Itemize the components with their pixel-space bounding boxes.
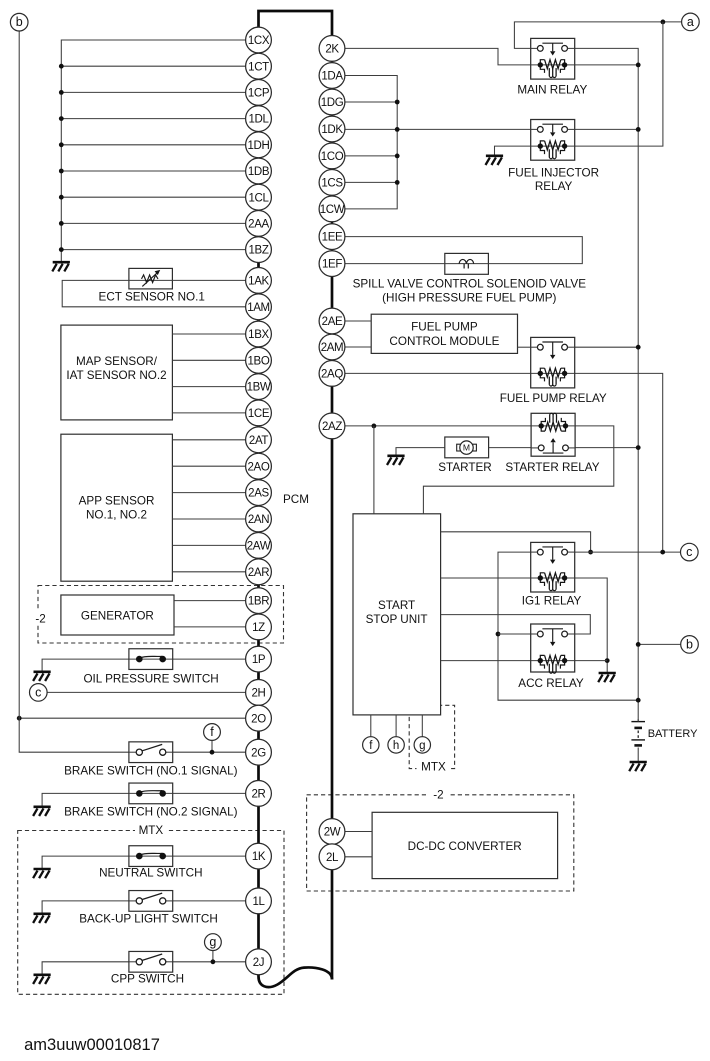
svg-text:1DG: 1DG (321, 97, 344, 109)
junction rail/FI contact (636, 127, 641, 132)
wire SSU to ACC contact (441, 615, 591, 634)
svg-text:a: a (687, 15, 694, 29)
svg-text:NEUTRAL SWITCH: NEUTRAL SWITCH (99, 866, 202, 879)
svg-text:c: c (686, 545, 692, 559)
ground (left collector) (52, 262, 70, 271)
svg-text:1AM: 1AM (247, 302, 270, 314)
wire main relay coil to rail (575, 64, 639, 66)
junction rail/starter contact (636, 445, 641, 450)
PCM pin 1CL (246, 184, 272, 210)
svg-text:2AM: 2AM (321, 342, 344, 354)
junction IG1/ACC ground (605, 658, 610, 663)
junction rail/accessory feed (636, 698, 641, 703)
svg-text:PCM: PCM (283, 493, 309, 506)
wire 1P to ground (42, 659, 246, 671)
wire SSU to IG1 contact feed (441, 532, 591, 552)
PCM pin 1CS (319, 170, 345, 196)
wire 1K to ground (42, 856, 246, 868)
label BACK-UP LIGHT SWITCH (79, 912, 218, 925)
PCM pin 1L (246, 888, 272, 914)
svg-text:MTX: MTX (421, 761, 446, 774)
svg-text:2AW: 2AW (247, 540, 271, 552)
svg-text:2H: 2H (251, 687, 265, 699)
label APP SENSOR (79, 494, 155, 507)
PCM pin 1DG (319, 89, 345, 115)
PCM pin 2AT (246, 427, 272, 453)
IG1 relay U5 (531, 542, 575, 592)
ground (oil pressure) (33, 672, 51, 681)
svg-text:FUEL INJECTOR: FUEL INJECTOR (508, 166, 599, 179)
svg-text:1DA: 1DA (321, 71, 343, 83)
svg-text:1DB: 1DB (248, 166, 270, 178)
junction 1CO (395, 154, 400, 159)
svg-text:SPILL VALVE CONTROL SOLENOID V: SPILL VALVE CONTROL SOLENOID VALVE (353, 278, 587, 291)
generator dashed enclosure (-2) (38, 586, 284, 644)
svg-text:-2: -2 (35, 613, 45, 626)
svg-text:ECT SENSOR NO.1: ECT SENSOR NO.1 (99, 291, 205, 304)
wire a-line to fuel injector relay coil (575, 22, 663, 146)
MTX dashed enclosure (left) (18, 831, 284, 995)
PCM pin 2G (246, 739, 272, 765)
label CONTROL MODULE (389, 335, 499, 348)
svg-text:b: b (16, 15, 23, 29)
svg-text:1P: 1P (252, 654, 266, 666)
junction 1DL (59, 116, 64, 121)
svg-text:BATTERY: BATTERY (648, 728, 698, 740)
svg-text:2AR: 2AR (248, 567, 269, 579)
PCM pin 1BR (246, 588, 272, 614)
svg-text:2J: 2J (253, 957, 264, 969)
PCM pin 1CO (319, 143, 345, 169)
label FUEL INJECTOR (508, 166, 599, 179)
label MAP SENSOR/ (76, 355, 158, 368)
wire 1DH (61, 144, 245, 146)
svg-text:c: c (35, 685, 41, 699)
PCM pin 1AM (246, 294, 272, 320)
wire SSU stub h (395, 715, 397, 737)
svg-text:g: g (209, 935, 216, 949)
node c (left) (30, 684, 48, 702)
thermistor (ECT sensor) (142, 270, 161, 287)
PCM bus right rail (331, 36, 334, 980)
wire ECT loop 1AK-1AM (62, 280, 245, 306)
svg-text:STOP UNIT: STOP UNIT (366, 613, 428, 626)
label RELAY (535, 180, 573, 193)
wire 1CS (345, 181, 397, 183)
wire 1BX (172, 333, 245, 335)
label START (378, 599, 415, 612)
junction 1CP (59, 90, 64, 95)
label -2 (DC-DC) (429, 787, 448, 802)
PCM pin 1DB (246, 158, 272, 184)
svg-text:1CE: 1CE (248, 408, 270, 420)
label -2 (generator) (32, 611, 51, 626)
PCM pin 1DL (246, 106, 272, 132)
svg-text:1CT: 1CT (248, 61, 269, 73)
wire 1BZ (61, 249, 245, 251)
battery BT1 (631, 719, 645, 745)
PCM pin 2AZ (319, 413, 345, 439)
wire 1CX to ground collector (61, 40, 245, 261)
wire B+ rail (575, 48, 639, 721)
junction 1DH (59, 142, 64, 147)
PCM pin 1CW (319, 196, 345, 222)
wire 1CL (61, 196, 245, 198)
PCM pin 2W (319, 819, 345, 845)
label NO.1, NO.2 (86, 508, 147, 521)
node g (start stop unit) (414, 737, 430, 753)
svg-text:1BO: 1BO (248, 355, 270, 367)
svg-text:1DH: 1DH (248, 140, 270, 152)
junction g/2J (211, 959, 216, 964)
PCM pin 1DK (319, 116, 345, 142)
svg-text:MAIN RELAY: MAIN RELAY (517, 84, 587, 97)
wire 2AA (61, 222, 245, 224)
node f (start stop unit) (363, 737, 379, 753)
PCM pin 2AQ (319, 361, 345, 387)
svg-text:(HIGH PRESSURE FUEL PUMP): (HIGH PRESSURE FUEL PUMP) (382, 292, 556, 305)
PCM bus break squiggle (259, 967, 333, 987)
wire 1DG (345, 101, 397, 103)
wire g stub (212, 951, 214, 962)
wire 1DL (61, 118, 245, 120)
ECT sensor box (129, 268, 173, 289)
wire 1L right segment (166, 900, 245, 902)
start stop unit box (353, 514, 441, 715)
wire 1Z (174, 626, 246, 628)
label STARTER RELAY (505, 461, 599, 474)
svg-text:STARTER: STARTER (438, 461, 491, 474)
fuel pump relay U3 (531, 337, 575, 388)
PCM pin 1P (246, 646, 272, 672)
wire IG1 coil to ground line (575, 578, 608, 672)
starter relay U4 (531, 413, 575, 456)
label OIL PRESSURE SWITCH (83, 672, 218, 685)
svg-text:BRAKE SWITCH (NO.1 SIGNAL): BRAKE SWITCH (NO.1 SIGNAL) (64, 764, 237, 777)
svg-text:1EF: 1EF (322, 259, 342, 271)
svg-text:2L: 2L (326, 852, 339, 864)
label IAT SENSOR NO.2 (66, 369, 166, 382)
wire 1BR (174, 600, 246, 602)
svg-text:BRAKE SWITCH (NO.2 SIGNAL): BRAKE SWITCH (NO.2 SIGNAL) (64, 805, 237, 818)
PCM pin 1CE (246, 400, 272, 426)
label IG1 RELAY (522, 595, 582, 608)
PCM pin 1Z (246, 614, 272, 640)
label MTX (node g) (417, 760, 451, 774)
wire starter relay contact to rail (574, 447, 638, 449)
svg-text:2AT: 2AT (249, 435, 269, 447)
node h (start stop unit) (388, 737, 404, 753)
svg-text:1CS: 1CS (321, 177, 343, 189)
PCM pin 2AE (319, 308, 345, 334)
svg-text:h: h (393, 740, 399, 752)
wire 2O to b-line (19, 717, 245, 719)
wire 2W to DC-DC (345, 831, 372, 833)
node f (brake switch) (204, 724, 221, 741)
svg-text:1DL: 1DL (248, 114, 269, 126)
wire 2AR (172, 571, 245, 573)
label CPP SWITCH (111, 973, 184, 986)
svg-text:1CW: 1CW (320, 204, 345, 216)
PCM pin 1K (246, 843, 272, 869)
svg-text:2AZ: 2AZ (322, 421, 342, 433)
PCM pin 1DH (246, 132, 272, 158)
label am3uuw00010817 (24, 1036, 160, 1054)
starter box (445, 437, 489, 458)
label MAIN RELAY (517, 84, 587, 97)
junction rail/main coil (636, 63, 641, 68)
svg-text:2R: 2R (251, 788, 265, 800)
svg-text:1BW: 1BW (247, 382, 271, 394)
wire 2J left to ground (42, 962, 136, 974)
svg-text:FUEL PUMP RELAY: FUEL PUMP RELAY (500, 392, 607, 405)
label ACC RELAY (518, 677, 584, 690)
label BRAKE SWITCH (NO.1 SIGNAL) (64, 764, 237, 777)
PCM pin 1EE (319, 224, 345, 250)
CPP switch S6 (129, 951, 173, 972)
wire 2AM (345, 346, 371, 348)
svg-text:2W: 2W (324, 827, 341, 839)
svg-text:2K: 2K (325, 43, 339, 55)
wire IG1 contact left leg (498, 552, 638, 700)
svg-text:2AN: 2AN (248, 514, 269, 526)
svg-text:1BX: 1BX (248, 329, 269, 341)
DC-DC converter box (372, 812, 557, 878)
svg-text:1BR: 1BR (248, 596, 269, 608)
PCM pin 2J (246, 949, 272, 975)
wire 2AS (172, 492, 245, 494)
svg-text:APP SENSOR: APP SENSOR (79, 494, 155, 507)
label GENERATOR (81, 610, 154, 623)
junction 2AA (59, 221, 64, 226)
label ECT SENSOR NO.1 (99, 291, 205, 304)
ground (battery) (629, 762, 647, 771)
svg-text:1BZ: 1BZ (248, 245, 268, 257)
label FUEL PUMP RELAY (500, 392, 607, 405)
back-up light switch S5 (129, 891, 173, 912)
wire 1CT (61, 65, 245, 67)
label STARTER (438, 461, 491, 474)
svg-text:IAT SENSOR NO.2: IAT SENSOR NO.2 (66, 369, 166, 382)
wire ACC coil to ground line (575, 660, 608, 662)
PCM pin 1CT (246, 53, 272, 79)
junction 1CS (395, 180, 400, 185)
wire 1DK to fuel injector relay (345, 128, 531, 130)
label FUEL PUMP (411, 321, 478, 334)
PCM pin 1EF (319, 251, 345, 277)
PCM pin 1CX (246, 27, 272, 53)
DC-DC converter dashed enclosure (-2) (307, 795, 574, 891)
svg-text:-2: -2 (433, 789, 443, 802)
junction a-line (661, 20, 666, 25)
wire node a to main relay contact (514, 22, 681, 49)
ground (starter) (387, 456, 405, 465)
PCM pin 2AO (246, 453, 272, 479)
PCM pin 1AK (246, 268, 272, 294)
starter motor M (457, 441, 477, 454)
fuel pump control module box (371, 314, 517, 353)
wire SSU to IG1 coil (441, 577, 531, 579)
svg-text:NO.1, NO.2: NO.1, NO.2 (86, 508, 147, 521)
PCM pin 2H (246, 680, 272, 706)
PCM pin 2R (246, 781, 272, 807)
label DC-DC CONVERTER (408, 840, 522, 853)
svg-text:2G: 2G (251, 747, 266, 759)
wire SSU stub g (421, 715, 423, 737)
wire starter relay coil return (423, 426, 613, 514)
svg-text:GENERATOR: GENERATOR (81, 610, 154, 623)
PCM bus top bracket (259, 11, 333, 36)
wire ACC contact left (498, 633, 531, 635)
wire 2AO (172, 465, 245, 467)
fuel injector relay U2 (531, 120, 575, 161)
ground (CPP switch) (33, 975, 51, 984)
wire 2J right segment (166, 961, 245, 963)
PCM pin 2AM (319, 334, 345, 360)
ground (back-up light switch) (33, 914, 51, 923)
svg-text:DC-DC CONVERTER: DC-DC CONVERTER (408, 840, 522, 853)
wire 2K to main relay coil (345, 48, 531, 65)
label BRAKE SWITCH (NO.2 SIGNAL) (64, 805, 237, 818)
wire module to FP relay contact (518, 346, 531, 348)
junction f/2G (210, 750, 215, 755)
junction 2AZ/start-stop (372, 424, 377, 429)
svg-text:IG1 RELAY: IG1 RELAY (522, 595, 582, 608)
PCM pin 1BZ (246, 237, 272, 263)
PCM pin 1CP (246, 80, 272, 106)
svg-text:am3uuw00010817: am3uuw00010817 (24, 1036, 160, 1054)
node b (top left) (10, 13, 28, 31)
svg-text:2AS: 2AS (248, 488, 269, 500)
label (HIGH PRESSURE FUEL PUMP) (382, 292, 556, 305)
svg-text:2AE: 2AE (322, 316, 343, 328)
svg-text:M: M (463, 443, 470, 453)
wire FP relay coil to c-line (575, 373, 663, 552)
label NEUTRAL SWITCH (99, 866, 202, 879)
node g (CPP switch) (205, 934, 222, 951)
svg-text:1L: 1L (252, 896, 265, 908)
wire IG1 contact to node c (575, 551, 681, 553)
wire FP relay contact to rail (575, 346, 639, 348)
wire 2AW (172, 544, 245, 546)
junction rail/b (636, 642, 641, 647)
wire starter to starter relay (489, 447, 531, 449)
PCM pin 1DA (319, 63, 345, 89)
svg-text:2AQ: 2AQ (321, 368, 343, 380)
node a (top right) (682, 13, 700, 31)
wire f stub (211, 741, 213, 752)
wire FI relay contact to rail (575, 128, 639, 130)
svg-text:1CX: 1CX (248, 35, 270, 47)
PCM pin 1BW (246, 374, 272, 400)
PCM pin 2AN (246, 506, 272, 532)
svg-text:MAP SENSOR/: MAP SENSOR/ (76, 355, 158, 368)
ground (IG1/ACC relays) (598, 673, 616, 682)
svg-text:1DK: 1DK (321, 124, 343, 136)
svg-text:START: START (378, 599, 415, 612)
svg-text:2O: 2O (251, 713, 266, 725)
wire FI relay coil to ground (495, 146, 531, 155)
junction 1DB (59, 169, 64, 174)
wire start stop unit feed (373, 426, 375, 514)
svg-text:1Z: 1Z (252, 622, 265, 634)
brake switch no.2 S3 (129, 783, 173, 804)
PCM pin 1BX (246, 321, 272, 347)
PCM pin 2AW (246, 533, 272, 559)
svg-text:CPP SWITCH: CPP SWITCH (111, 973, 184, 986)
junction 1DG (395, 100, 400, 105)
ground (brake switch no.2) (33, 807, 51, 816)
MAP/IAT sensor box (61, 325, 172, 420)
wire spill valve loop 1EE-1EF (345, 237, 582, 264)
APP sensor box (61, 434, 172, 581)
ACC relay U6 (531, 624, 575, 673)
svg-text:b: b (686, 637, 693, 651)
generator box (61, 595, 174, 635)
svg-text:STARTER RELAY: STARTER RELAY (505, 461, 599, 474)
wire SSU to ACC coil (441, 660, 531, 662)
wire 2L to DC-DC (345, 856, 372, 858)
solenoid coil (spill valve) (459, 259, 474, 268)
wire 2AZ to starter relay coil (345, 425, 531, 427)
PCM pin 2L (319, 844, 345, 870)
svg-text:FUEL PUMP: FUEL PUMP (411, 321, 478, 334)
wire 1BW (172, 386, 245, 388)
wire starter ground (396, 448, 445, 456)
junction c-line (660, 550, 665, 555)
wire 1L left to ground (42, 901, 136, 913)
svg-text:2AA: 2AA (248, 218, 269, 230)
svg-text:1K: 1K (252, 851, 266, 863)
wire 2R to ground (42, 793, 246, 806)
label PCM (283, 493, 309, 506)
svg-text:BACK-UP LIGHT SWITCH: BACK-UP LIGHT SWITCH (79, 912, 218, 925)
wire c to 2H (47, 691, 246, 693)
wire 2AQ to FP relay coil (345, 372, 531, 374)
wire 1DA collector (345, 76, 397, 209)
svg-text:1AK: 1AK (248, 275, 269, 287)
svg-text:OIL PRESSURE SWITCH: OIL PRESSURE SWITCH (83, 672, 218, 685)
wire 1CP (61, 91, 245, 93)
PCM pin 2AA (246, 211, 272, 237)
wire 1DB (61, 170, 245, 172)
brake switch no.1 S2 (129, 742, 173, 763)
junction ACC contact tap (496, 632, 501, 637)
label BATTERY (648, 728, 698, 740)
wire 2AN (172, 518, 245, 520)
PCM pin 2K (319, 36, 345, 62)
svg-text:g: g (419, 740, 425, 752)
oil pressure switch S1 (129, 649, 173, 670)
svg-text:1CP: 1CP (248, 87, 270, 99)
wire 2AE (345, 320, 371, 322)
junction 1CL (59, 195, 64, 200)
wire 2AT (172, 439, 245, 441)
wire 1BO (172, 359, 245, 361)
MTX dashed enclosure (node g) (409, 705, 454, 768)
svg-text:CONTROL MODULE: CONTROL MODULE (389, 335, 499, 348)
svg-text:1EE: 1EE (322, 232, 343, 244)
junction 1DK (395, 127, 400, 132)
PCM pin 2AS (246, 480, 272, 506)
label MTX (left box) (135, 823, 167, 837)
wire 1CO (345, 155, 397, 157)
svg-text:1CO: 1CO (321, 151, 344, 163)
junction IG1 feed (588, 550, 593, 555)
node b (right) (681, 636, 699, 654)
junction 2O/b-line (17, 716, 22, 721)
junction 1CT (59, 64, 64, 69)
